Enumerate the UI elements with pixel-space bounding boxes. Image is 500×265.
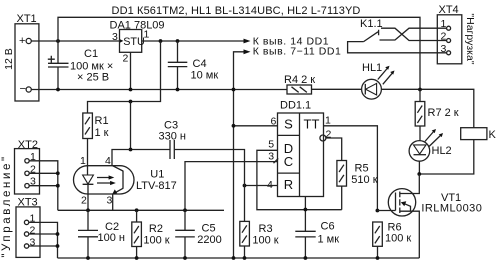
upper fixed contact crossing to pin2: [381, 28, 447, 40]
svg-text:100 к: 100 к: [252, 235, 278, 247]
coupling arrows: [97, 178, 112, 184]
svg-text:R2: R2: [149, 223, 163, 235]
node D line / C6: [304, 208, 308, 212]
capacitor C2: [78, 210, 125, 258]
pin 4 wire: [112, 150, 131, 166]
arrow to pin 14 DD1: [244, 39, 251, 44]
connector XT3: [16, 197, 59, 258]
channel segments: [399, 192, 401, 214]
XT2 pin wires and bus: [29, 161, 58, 211]
node R2 top: [135, 208, 139, 212]
voltage regulator DA1 78L09: [110, 19, 165, 89]
svg-text:TT: TT: [304, 117, 320, 132]
substrate arrow: [402, 203, 411, 212]
svg-text:100 к: 100 к: [143, 235, 169, 247]
svg-text:100 к: 100 к: [385, 233, 411, 245]
optocoupler U1: [74, 150, 177, 211]
svg-text:3: 3: [107, 195, 113, 207]
capacitor C3: [131, 120, 245, 186]
svg-text:12 В: 12 В: [3, 48, 15, 70]
node drain junction: [417, 172, 421, 176]
node R3 bottom: [243, 256, 247, 260]
node C4 bottom: [176, 88, 180, 92]
svg-text:1: 1: [144, 29, 150, 41]
svg-text:К выв. 7−11 DD1: К выв. 7−11 DD1: [253, 46, 342, 58]
svg-text:IRLML0030: IRLML0030: [421, 203, 482, 215]
svg-text:5: 5: [268, 139, 274, 151]
svg-text:DD1 К561ТМ2, HL1 BL-L314UBC, H: DD1 К561ТМ2, HL1 BL-L314UBC, HL2 L-7113Y…: [112, 5, 361, 17]
svg-text:1 к: 1 к: [95, 127, 109, 139]
wire +12V from XT1 to DA1 pin3: [31, 40, 119, 42]
svg-text:2200: 2200: [197, 234, 221, 246]
svg-text:U1: U1: [150, 169, 164, 181]
svg-text:C5: C5: [202, 222, 216, 234]
node R6 bottom: [376, 256, 380, 260]
wire branch down to U1 collector line: [130, 102, 132, 150]
XT3 pin wires and bus: [29, 222, 58, 258]
svg-text:R: R: [284, 177, 293, 192]
svg-text:+: +: [19, 35, 25, 47]
svg-text:S: S: [284, 117, 293, 132]
svg-text:C4: C4: [193, 58, 207, 70]
flip-flop DD1.1: [267, 100, 332, 197]
resistor R5: [337, 161, 378, 210]
movable arm: [364, 30, 379, 42]
svg-text:1: 1: [325, 115, 331, 127]
svg-text:XT2: XT2: [18, 139, 38, 151]
svg-text:C: C: [284, 154, 293, 169]
svg-text:R1: R1: [95, 115, 109, 127]
svg-text:"Нагрузка": "Нагрузка": [464, 13, 476, 64]
drain wire: [400, 174, 420, 194]
capacitor C5: [175, 210, 222, 258]
common route to XT4 pin3: [348, 42, 447, 53]
node C1 top: [56, 39, 60, 43]
svg-text:HL1: HL1: [362, 62, 382, 74]
wire +9V drop to R1 line: [88, 41, 161, 113]
resistor R7: [415, 90, 459, 141]
svg-text:DD1.1: DD1.1: [280, 100, 311, 112]
wire S input from ground vertical: [234, 125, 278, 127]
LED HL1: [362, 62, 395, 99]
svg-text:K: K: [489, 129, 497, 141]
relay coil K: [419, 128, 496, 174]
svg-text:R4 2 к: R4 2 к: [284, 74, 315, 86]
wire pin2 to R5: [326, 138, 342, 161]
svg-text:1: 1: [441, 18, 447, 30]
svg-text:HL2: HL2: [432, 145, 452, 157]
bottom ground rail: [58, 257, 420, 259]
pin 3 wire: [112, 194, 114, 210]
phototransistor: [122, 171, 124, 189]
LED inside: [83, 175, 94, 184]
svg-text:3: 3: [441, 43, 447, 55]
svg-text:STU: STU: [123, 36, 145, 48]
node gate/R6: [376, 209, 380, 213]
node R2 bottom: [135, 256, 139, 260]
ground rail (XT1 minus): [31, 89, 287, 91]
svg-text:−: −: [20, 83, 26, 95]
svg-text:R5: R5: [355, 163, 369, 175]
wire DA1 pin2 to ground rail: [130, 52, 132, 89]
resistor R6: [373, 222, 412, 259]
node ground vertical: [232, 88, 236, 92]
wire R4 to HL1: [312, 88, 362, 90]
wire +9V rail from DA1 pin1: [142, 40, 247, 42]
svg-text:C1: C1: [84, 48, 98, 60]
connector XT2: [15, 139, 60, 210]
LED HL2: [409, 129, 452, 174]
connector XT1: [15, 13, 39, 101]
wire D input loop: [257, 150, 342, 209]
node riser x160: [159, 39, 163, 43]
wire R1 bottom to U1 pin1: [87, 139, 89, 176]
node C5 bottom: [183, 256, 187, 260]
svg-text:330 н: 330 н: [159, 131, 186, 143]
svg-text:× 25 В: × 25 В: [77, 72, 109, 84]
node R input / R3 / C3: [243, 184, 247, 188]
svg-text:C6: C6: [321, 221, 335, 233]
svg-text:LTV-817: LTV-817: [136, 180, 177, 192]
resistor R3: [240, 186, 279, 259]
transistor VT1: [388, 174, 482, 258]
svg-text:100 н: 100 н: [98, 232, 125, 244]
node S ground: [232, 124, 236, 128]
node C4 top: [176, 39, 180, 43]
svg-text:2: 2: [441, 31, 447, 43]
wire R input: [245, 185, 278, 187]
wire gate lead: [377, 210, 395, 212]
gate bar: [395, 193, 397, 211]
svg-text:"Управление": "Управление": [1, 154, 13, 257]
inversion bubble pin2: [320, 135, 326, 141]
node C3 left / +9 drop: [129, 148, 133, 152]
resistor R1: [83, 113, 109, 175]
node C6 bottom: [304, 256, 308, 260]
wire control line y210: [58, 209, 224, 211]
capacitor C6: [295, 197, 339, 259]
svg-text:2: 2: [81, 195, 87, 207]
svg-text:10 мк: 10 мк: [191, 70, 219, 82]
wire DD1 pin1 to gate node: [324, 126, 378, 211]
node DA1 pin2: [129, 88, 133, 92]
svg-text:1: 1: [80, 155, 86, 167]
resistor R4: [284, 74, 315, 94]
relay contact K1.1: [348, 18, 447, 53]
wire C input from C5 node: [185, 162, 278, 211]
svg-text:1 мк: 1 мк: [318, 234, 340, 246]
svg-text:510 к: 510 к: [351, 174, 377, 186]
wire HL1 to +12 node: [381, 89, 474, 127]
resistor R2: [132, 210, 170, 258]
connector XT4: [437, 4, 462, 64]
source wire: [400, 211, 420, 258]
svg-text:3: 3: [112, 31, 118, 43]
node C1 bottom: [56, 88, 60, 92]
capacitor C4: [168, 41, 219, 90]
node R1 branch: [129, 100, 133, 104]
node C5 top: [183, 208, 187, 212]
node U1 pin2: [86, 208, 90, 212]
svg-text:R7 2 к: R7 2 к: [428, 107, 459, 119]
wire +12V riser and top bus to right column: [58, 17, 420, 89]
svg-text:4: 4: [105, 155, 111, 167]
svg-text:R3: R3: [259, 223, 273, 235]
node C2 bottom: [86, 256, 90, 260]
capacitor C1: [48, 41, 113, 90]
node ground vertical bottom: [232, 256, 236, 260]
node +12 drop: [418, 88, 422, 92]
lower fixed contact crossing to pin1: [380, 28, 447, 40]
svg-text:3: 3: [268, 151, 274, 163]
dynamic input tick on C: [274, 158, 279, 163]
wire to pins 7-11 DD1 with arrow: [234, 52, 248, 258]
svg-text:2: 2: [123, 53, 129, 65]
svg-text:K1.1: K1.1: [360, 18, 383, 30]
